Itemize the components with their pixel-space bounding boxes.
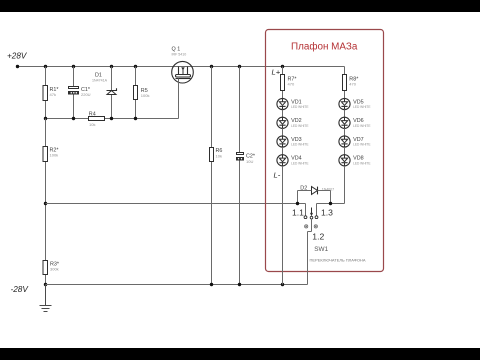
indicator position B (314, 225, 317, 228)
diode D2 (300, 185, 334, 194)
contact 1.3 (315, 216, 318, 219)
junction top rail D1 (110, 65, 113, 68)
svg-text:Плафон МАЗа: Плафон МАЗа (291, 42, 358, 53)
svg-text:LED WHITE: LED WHITE (291, 105, 308, 109)
LED VD6 (339, 117, 371, 128)
svg-text:470: 470 (349, 82, 356, 87)
svg-text:220U: 220U (81, 92, 91, 97)
wire D2 cathode lead (318, 191, 331, 204)
wire D1 leads (111, 67, 113, 119)
wire R5 leads (135, 67, 137, 119)
junction top rail C1 (72, 65, 75, 68)
svg-text:-28V: -28V (11, 285, 30, 294)
svg-text:300k: 300k (50, 267, 59, 272)
wire R8 feed and leads (344, 67, 346, 99)
svg-text:100k: 100k (50, 153, 59, 158)
indicator position A (305, 225, 308, 228)
wire R6 leads (211, 67, 213, 285)
LED VD2 (277, 117, 309, 128)
svg-text:1.3: 1.3 (321, 207, 333, 217)
wire C2 leads (239, 67, 241, 285)
wire VD3 cathode link (282, 147, 284, 155)
wire VD2 cathode link (282, 128, 284, 136)
wire R1 leads (45, 67, 47, 119)
LED VD4 (277, 155, 309, 166)
wire bottom rail (46, 284, 308, 286)
junction top rail R6 (210, 65, 213, 68)
svg-text:ПЕРЕКЛЮЧАТЕЛЬ ПЛАФОНА: ПЕРЕКЛЮЧАТЕЛЬ ПЛАФОНА (310, 258, 366, 263)
wire R2 leads (45, 119, 47, 204)
svg-text:1N4741A: 1N4741A (92, 78, 108, 82)
junction D2 cathode / contact 1.3 (329, 202, 332, 205)
capacitor C2 (237, 153, 256, 164)
resistor R8 (343, 75, 360, 91)
contact 1.1 (304, 216, 307, 219)
junction D2 anode / contact 1.1 (296, 202, 299, 205)
ground (40, 285, 52, 312)
wire R3 leads (45, 204, 47, 285)
switch SW1 (292, 207, 366, 262)
svg-text:1.1: 1.1 (292, 207, 304, 217)
resistor R6 (210, 148, 223, 162)
LED VD7 (339, 136, 371, 147)
svg-text:LED WHITE: LED WHITE (353, 105, 370, 109)
resistor R5 (134, 86, 150, 100)
svg-text:LED WHITE: LED WHITE (353, 143, 370, 147)
transistor Q1 (172, 46, 194, 83)
wire switch common 1.2 to bottom rail (308, 219, 312, 285)
junction top rail R5 (134, 65, 137, 68)
svg-text:47k: 47k (50, 92, 56, 97)
resistor R4 (89, 111, 105, 127)
svg-text:100k: 100k (141, 93, 150, 98)
svg-text:LED WHITE: LED WHITE (291, 143, 308, 147)
resistor R1 (43, 86, 59, 101)
svg-text:L-: L- (274, 171, 281, 180)
wire VD5 cathode link (344, 110, 346, 118)
junction R2/R3 rail tap (44, 202, 47, 205)
junction top rail C2 (238, 65, 241, 68)
wire C1 leads (73, 67, 75, 119)
resistor R3 (43, 261, 60, 275)
LED VD1 (277, 98, 309, 109)
wire R7 leads (282, 67, 284, 99)
svg-text:IRF 5410: IRF 5410 (172, 53, 187, 57)
svg-text:1.2: 1.2 (312, 231, 324, 241)
svg-text:L+: L+ (272, 68, 281, 77)
junction bottom rail C2 (238, 283, 241, 286)
wire middle rail (46, 118, 179, 120)
svg-text:R4: R4 (89, 111, 96, 117)
junction middle rail D1 (110, 117, 113, 120)
svg-text:LED WHITE: LED WHITE (291, 162, 308, 166)
junction middle rail R5 (134, 117, 137, 120)
svg-text:10k: 10k (89, 122, 95, 127)
LED VD5 (339, 98, 371, 109)
LED VD3 (277, 136, 309, 147)
wire D2 anode lead (298, 191, 312, 204)
junction top rail R1 (44, 65, 47, 68)
zener diode D1 (92, 73, 117, 95)
wire left rail to switch contact 1.1 (46, 204, 306, 216)
junction -28V / ground (44, 283, 47, 286)
contact 1.2 pole (310, 216, 313, 219)
junction top rail L+ (281, 65, 284, 68)
svg-text:LED WHITE: LED WHITE (353, 124, 370, 128)
junction bottom rail R6 (210, 283, 213, 286)
switch arm (311, 208, 313, 214)
wire Q1 gate lead (178, 79, 180, 119)
junction middle rail R1/R2 (44, 117, 47, 120)
wire VD7 cathode link (344, 147, 346, 155)
wire VD1 cathode link (282, 110, 284, 118)
resistor R2 (43, 147, 59, 162)
wire +28V top rail (18, 66, 345, 68)
resistor R7 (281, 75, 298, 91)
junction middle rail C1 (72, 117, 75, 120)
svg-text:LED WHITE: LED WHITE (291, 124, 308, 128)
junction endpoint +28V (16, 65, 19, 68)
svg-text:SW1: SW1 (314, 246, 328, 253)
LED VD8 (339, 155, 371, 166)
svg-text:+28V: +28V (7, 52, 28, 61)
enclosure box Плафон МАЗа (266, 30, 384, 272)
wire VD6 cathode link (344, 128, 346, 136)
junction bottom rail L- (281, 283, 284, 286)
wire L- down to bottom rail (282, 166, 284, 285)
svg-text:470: 470 (288, 82, 295, 87)
wire VD8 bottom to switch contact 1.3 (317, 166, 345, 216)
capacitor C1 (69, 87, 91, 98)
svg-text:10k: 10k (216, 154, 222, 159)
svg-text:Q 1: Q 1 (172, 46, 181, 52)
svg-text:LED WHITE: LED WHITE (353, 162, 370, 166)
svg-text:10U: 10U (246, 159, 253, 164)
